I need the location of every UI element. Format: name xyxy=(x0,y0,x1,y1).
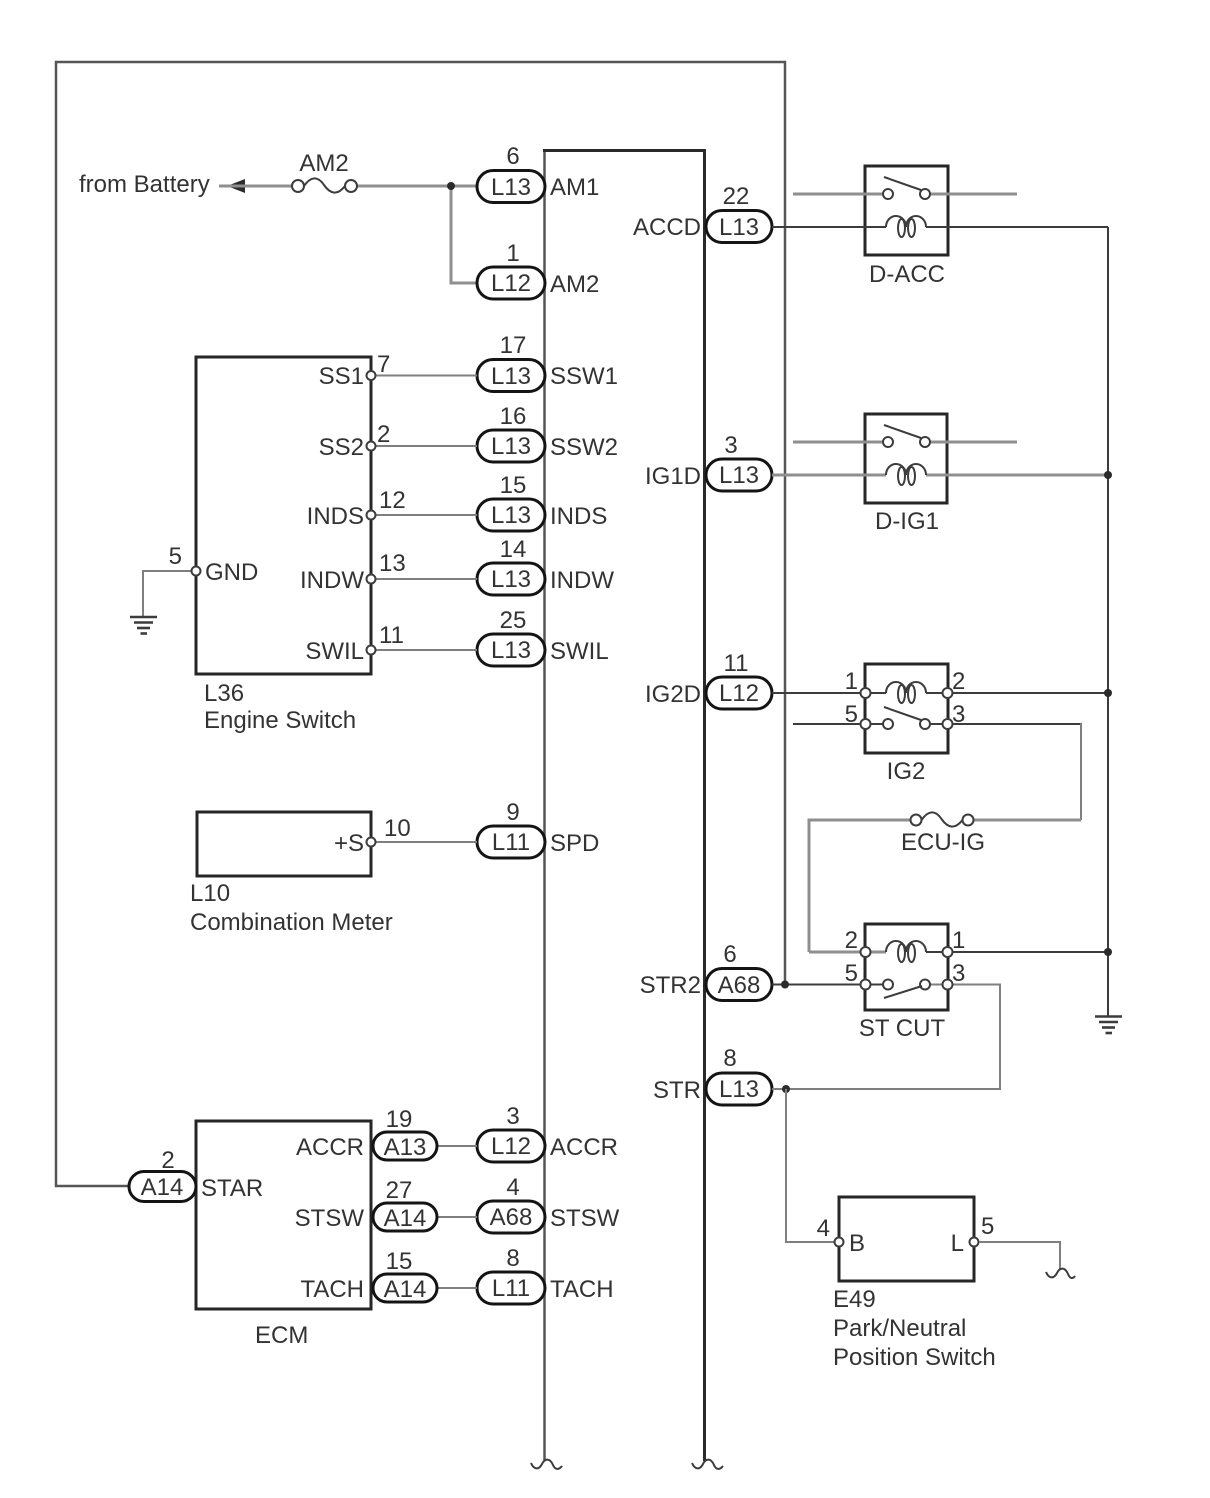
arrow on battery wire xyxy=(227,179,245,193)
wire E49 pin L to break xyxy=(979,1242,1060,1270)
svg-text:INDW: INDW xyxy=(550,567,614,594)
wire: outer loop from ECM STAR up over the top to STR2 bus xyxy=(56,62,785,1186)
junction at battery wire branch xyxy=(447,182,455,190)
wire ECM STSW A14 to A68 xyxy=(437,1216,477,1218)
svg-text:1: 1 xyxy=(952,927,965,954)
E49 Park/Neutral Position Switch box xyxy=(839,1197,974,1281)
svg-text:L36: L36 xyxy=(204,680,244,707)
connector pin 1 L12 (AM2) xyxy=(477,240,599,299)
svg-text:L13: L13 xyxy=(719,1076,759,1103)
svg-text:6: 6 xyxy=(723,941,736,968)
break symbol at bottom of left bus line xyxy=(531,1460,562,1469)
svg-text:L13: L13 xyxy=(491,433,531,460)
svg-text:15: 15 xyxy=(386,1248,413,1275)
wire D-ACC coil to ground bus xyxy=(926,226,1108,228)
svg-text:Position Switch: Position Switch xyxy=(833,1344,996,1371)
wire ECU-IG to ST CUT pin 2 xyxy=(809,951,886,954)
wire +S to SPD xyxy=(371,841,477,843)
svg-text:A14: A14 xyxy=(141,1174,184,1201)
wire SS2 to SSW2 xyxy=(371,445,477,447)
svg-text:A68: A68 xyxy=(718,972,761,999)
svg-text:19: 19 xyxy=(386,1106,413,1133)
switch contacts D-ACC xyxy=(883,189,893,199)
relay D-ACC box xyxy=(865,166,948,255)
svg-text:3: 3 xyxy=(506,1103,519,1130)
svg-text:L12: L12 xyxy=(491,270,531,297)
svg-text:A68: A68 xyxy=(490,1204,533,1231)
connector pin 8 L11 (TACH) xyxy=(477,1245,614,1304)
switch blade IG2 xyxy=(884,707,921,720)
connector pin 8 L13 (STR) xyxy=(653,1045,772,1105)
pin SS1 (7) xyxy=(367,371,376,380)
svg-text:16: 16 xyxy=(500,403,527,430)
svg-text:SPD: SPD xyxy=(550,830,599,857)
coil IG2 xyxy=(886,682,926,703)
svg-text:INDS: INDS xyxy=(307,503,364,530)
connector pin 4 A68 (STSW) xyxy=(477,1174,620,1233)
svg-text:9: 9 xyxy=(506,799,519,826)
junction dot STR xyxy=(782,1085,790,1093)
wire ACCD to D-ACC coil xyxy=(772,226,886,228)
coil D-ACC xyxy=(886,216,926,237)
connector pin 6 L13 (AM1) xyxy=(477,143,599,203)
svg-text:7: 7 xyxy=(377,351,390,378)
svg-text:10: 10 xyxy=(384,815,411,842)
connector pin 3 L12 (ACCR) xyxy=(477,1103,618,1162)
svg-text:ST CUT: ST CUT xyxy=(859,1015,946,1042)
wire SS1 to SSW1 xyxy=(371,375,477,377)
svg-text:SS1: SS1 xyxy=(319,363,364,390)
fuse AM2 xyxy=(292,180,304,192)
svg-text:D-IG1: D-IG1 xyxy=(875,508,939,535)
relay IG2 box xyxy=(865,664,948,753)
svg-text:3: 3 xyxy=(724,432,737,459)
svg-text:INDS: INDS xyxy=(550,503,607,530)
svg-text:Engine Switch: Engine Switch xyxy=(204,707,356,734)
ground symbol (right bus) xyxy=(1095,1017,1122,1034)
svg-text:L13: L13 xyxy=(719,462,759,489)
svg-text:AM1: AM1 xyxy=(550,174,599,201)
svg-text:B: B xyxy=(849,1230,865,1257)
svg-text:GND: GND xyxy=(205,559,258,586)
svg-text:3: 3 xyxy=(952,960,965,987)
svg-text:11: 11 xyxy=(724,650,749,677)
svg-text:L13: L13 xyxy=(491,174,531,201)
svg-text:17: 17 xyxy=(500,332,527,359)
svg-text:SWIL: SWIL xyxy=(305,638,364,665)
svg-text:SWIL: SWIL xyxy=(550,638,609,665)
svg-text:+S: +S xyxy=(334,830,364,857)
svg-text:INDW: INDW xyxy=(300,567,364,594)
wire SWIL to SWIL xyxy=(371,649,477,651)
switch contacts IG2 xyxy=(883,719,893,729)
wire IG2 switch row left stub xyxy=(793,723,883,725)
connector pin 17 L13 (SSW1) xyxy=(477,332,618,392)
wire: central connector bus top xyxy=(543,149,706,152)
svg-text:5: 5 xyxy=(845,960,858,987)
svg-text:ECU-IG: ECU-IG xyxy=(901,829,985,856)
pin SS2 (2) xyxy=(367,442,376,451)
wire D-IG1 switch row left stub xyxy=(793,441,883,444)
break symbol at bottom of right bus line xyxy=(692,1460,723,1469)
svg-text:15: 15 xyxy=(500,472,527,499)
wire ST CUT pin 1 to ground bus xyxy=(926,951,1108,953)
wire: central connector bus left side xyxy=(543,151,546,1462)
wire ground bus (right) xyxy=(1107,227,1109,1016)
wire IG2D to IG2 pin 1 xyxy=(772,692,886,694)
svg-text:A14: A14 xyxy=(384,1276,427,1303)
svg-text:A14: A14 xyxy=(384,1205,427,1232)
svg-text:SSW2: SSW2 xyxy=(550,434,618,461)
connector pin 16 L13 (SSW2) xyxy=(477,403,618,462)
switch blade D-IG1 xyxy=(884,425,921,438)
svg-text:ACCR: ACCR xyxy=(296,1134,364,1161)
svg-text:27: 27 xyxy=(386,1177,413,1204)
connector pin 11 L12 (IG2D) xyxy=(645,650,772,709)
svg-text:AM2: AM2 xyxy=(299,150,348,177)
svg-text:L11: L11 xyxy=(492,829,530,856)
svg-text:6: 6 xyxy=(506,143,519,170)
wire D-IG1 coil to ground bus xyxy=(926,474,1108,477)
svg-text:22: 22 xyxy=(723,183,750,210)
svg-text:AM2: AM2 xyxy=(550,271,599,298)
svg-text:L: L xyxy=(951,1230,964,1257)
svg-text:L10: L10 xyxy=(190,880,230,907)
wire D-ACC switch row right stub xyxy=(930,193,1017,196)
svg-text:8: 8 xyxy=(506,1245,519,1272)
svg-text:14: 14 xyxy=(500,536,527,563)
wire STR to E49 pin B xyxy=(786,1089,834,1242)
wire: central connector bus right side xyxy=(703,151,706,1462)
ground symbol (engine switch) xyxy=(130,617,157,634)
svg-text:ECM: ECM xyxy=(255,1322,308,1349)
svg-text:L13: L13 xyxy=(719,214,759,241)
svg-text:IG2D: IG2D xyxy=(645,681,701,708)
junction dot STR2 xyxy=(781,981,789,989)
svg-text:2: 2 xyxy=(377,421,390,448)
svg-text:STR: STR xyxy=(653,1077,701,1104)
svg-text:5: 5 xyxy=(169,543,182,570)
pin circles on IG2 box edges xyxy=(861,688,871,698)
svg-text:D-ACC: D-ACC xyxy=(869,261,945,288)
svg-text:L12: L12 xyxy=(719,680,759,707)
svg-text:ACCD: ACCD xyxy=(633,214,701,241)
wire GND pin to ground xyxy=(143,571,196,616)
svg-text:SS2: SS2 xyxy=(319,434,364,461)
svg-text:L12: L12 xyxy=(491,1133,531,1160)
svg-text:Park/Neutral: Park/Neutral xyxy=(833,1315,966,1342)
relay ST CUT box xyxy=(865,924,948,1010)
wire INDS to INDS xyxy=(371,514,477,516)
svg-text:5: 5 xyxy=(981,1213,994,1240)
svg-text:STAR: STAR xyxy=(201,1175,263,1202)
svg-text:2: 2 xyxy=(952,668,965,695)
svg-text:L11: L11 xyxy=(492,1275,530,1302)
svg-text:IG1D: IG1D xyxy=(645,463,701,490)
svg-text:from Battery: from Battery xyxy=(79,171,210,198)
coil ST CUT xyxy=(886,941,926,962)
svg-text:25: 25 xyxy=(500,607,527,634)
svg-text:4: 4 xyxy=(506,1174,519,1201)
switch contacts ST CUT xyxy=(883,980,893,990)
svg-text:8: 8 xyxy=(723,1045,736,1072)
break symbol at E49 L wire end xyxy=(1046,1269,1075,1278)
svg-text:11: 11 xyxy=(379,622,404,649)
svg-text:L13: L13 xyxy=(491,566,531,593)
wire IG2 pin 2 to ground bus xyxy=(926,692,1108,694)
svg-text:STSW: STSW xyxy=(295,1205,365,1232)
svg-text:STR2: STR2 xyxy=(640,972,701,999)
svg-text:A13: A13 xyxy=(384,1134,427,1161)
L36 Engine Switch box xyxy=(196,357,371,674)
svg-text:E49: E49 xyxy=(833,1286,876,1313)
wire: branch down to AM2 xyxy=(451,186,477,283)
svg-text:TACH: TACH xyxy=(550,1276,614,1303)
wire D-IG1 switch row right stub xyxy=(930,441,1017,444)
junction dot ground bus at D-IG1 xyxy=(1104,471,1112,479)
svg-text:3: 3 xyxy=(952,701,965,728)
svg-text:IG2: IG2 xyxy=(887,758,926,785)
wire STR2 to ST CUT pin 5 xyxy=(772,984,883,986)
svg-text:L13: L13 xyxy=(491,363,531,390)
connector pin 19 A13 (ACCR) on ECM xyxy=(296,1106,437,1161)
connector pin 3 L13 (IG1D) xyxy=(645,432,772,491)
connector pin 27 A14 (STSW) on ECM xyxy=(295,1177,437,1232)
wire: from battery to AM1 xyxy=(219,185,292,188)
wire INDW to INDW xyxy=(371,578,477,580)
pin SWIL (11) xyxy=(367,646,376,655)
svg-text:1: 1 xyxy=(845,668,858,695)
switch contacts D-IG1 xyxy=(883,437,893,447)
junction dot ground bus at IG2 xyxy=(1104,689,1112,697)
svg-text:2: 2 xyxy=(845,927,858,954)
connector pin 2 A14 (STAR) on ECM xyxy=(129,1147,263,1202)
svg-text:L13: L13 xyxy=(491,637,531,664)
switch blade D-ACC xyxy=(884,177,921,190)
pin B (4) of E49 xyxy=(835,1238,844,1247)
svg-text:TACH: TACH xyxy=(300,1276,364,1303)
L10 Combination Meter box xyxy=(197,812,371,876)
wire ST CUT pin 3 down to STR xyxy=(772,985,1000,1090)
svg-text:ACCR: ACCR xyxy=(550,1134,618,1161)
coil D-IG1 xyxy=(886,464,926,485)
svg-text:L13: L13 xyxy=(491,502,531,529)
pin GND (5) xyxy=(192,567,201,576)
pin INDW (13) xyxy=(367,575,376,584)
connector pin 15 A14 (TACH) on ECM xyxy=(300,1248,437,1303)
svg-text:STSW: STSW xyxy=(550,1205,620,1232)
pin L (5) of E49 xyxy=(970,1238,979,1247)
connector pin 6 A68 (STR2) xyxy=(640,941,772,1001)
relay D-IG1 box xyxy=(865,414,947,503)
pin INDS (12) xyxy=(367,511,376,520)
connector pin 25 L13 (SWIL) xyxy=(477,607,609,666)
wire IG2 pin 3 to ECU-IG fuse xyxy=(930,723,1081,725)
svg-text:13: 13 xyxy=(379,550,406,577)
wire IG1D to D-IG1 coil xyxy=(772,474,886,477)
fuse ECU-IG xyxy=(809,820,910,952)
svg-text:4: 4 xyxy=(817,1215,830,1242)
junction dot ground bus at ST CUT xyxy=(1104,948,1112,956)
svg-text:SSW1: SSW1 xyxy=(550,363,618,390)
wire ECM ACCR A13 to L12 xyxy=(437,1145,477,1147)
wire D-ACC switch row left stub xyxy=(793,193,883,196)
svg-text:1: 1 xyxy=(506,240,519,267)
svg-text:12: 12 xyxy=(379,487,406,514)
svg-text:5: 5 xyxy=(845,701,858,728)
wire ECM TACH A14 to L11 xyxy=(437,1287,477,1289)
svg-text:Combination Meter: Combination Meter xyxy=(190,909,393,936)
pin +S (10) xyxy=(367,838,376,847)
switch blade ST CUT xyxy=(884,986,922,998)
connector pin 22 L13 (ACCD) xyxy=(633,183,772,243)
connector pin 9 L11 (SPD) xyxy=(477,799,599,858)
connector pin 15 L13 (INDS) xyxy=(477,472,607,531)
svg-text:2: 2 xyxy=(161,1147,174,1174)
pin circles on ST CUT box edges xyxy=(861,947,871,957)
connector pin 14 L13 (INDW) xyxy=(477,536,614,595)
ECM box xyxy=(196,1121,371,1309)
